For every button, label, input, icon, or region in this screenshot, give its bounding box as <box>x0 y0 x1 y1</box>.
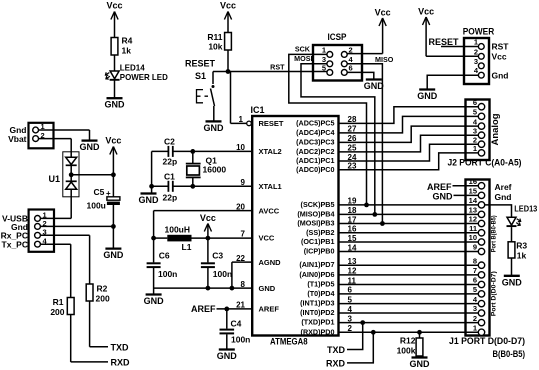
node (TXD/PD1) <box>360 320 365 325</box>
svg-text:(SCK)PB5: (SCK)PB5 <box>301 200 335 209</box>
svg-text:1: 1 <box>239 115 244 124</box>
svg-text:GND: GND <box>417 91 438 101</box>
LED LED13 <box>507 204 538 226</box>
svg-text:GND: GND <box>80 142 101 152</box>
wire <box>419 356 421 357</box>
wire PORT C bus (PC5-PC0 to J2) <box>339 107 479 170</box>
svg-text:Vcc: Vcc <box>418 7 434 17</box>
wire <box>419 332 421 338</box>
svg-text:Tx_PC: Tx_PC <box>2 240 28 250</box>
svg-text:C3: C3 <box>212 251 223 261</box>
ground (below S1) <box>204 121 225 132</box>
svg-text:1k: 1k <box>122 46 132 56</box>
svg-text:L1: L1 <box>182 242 192 252</box>
svg-text:1: 1 <box>322 46 326 55</box>
svg-text:RXD: RXD <box>326 359 346 369</box>
svg-text:RESET: RESET <box>259 119 284 128</box>
svg-text:Vcc: Vcc <box>375 8 391 18</box>
svg-text:3: 3 <box>473 304 477 313</box>
ground (below C6) <box>144 295 165 307</box>
svg-text:5: 5 <box>473 285 477 294</box>
wire (GND to J1 pin15) <box>454 194 479 196</box>
svg-text:10k: 10k <box>208 42 222 52</box>
wire GND pin 8 rail <box>154 287 253 289</box>
svg-text:XTAL2: XTAL2 <box>259 147 282 156</box>
svg-text:Vcc: Vcc <box>105 136 121 146</box>
power net Vcc (POWER) <box>418 7 478 57</box>
ground (POWER header) <box>417 90 438 102</box>
svg-text:GND: GND <box>204 123 225 133</box>
label MOSI <box>294 54 312 63</box>
wire (U1 bottom to V-USB) <box>41 190 71 219</box>
svg-text:Gnd: Gnd <box>492 71 509 81</box>
capacitor C6 <box>147 238 178 294</box>
wire (Rx_PC to R2) <box>41 235 90 284</box>
ground (below R3) <box>502 276 523 288</box>
label Port D(D0-D7) (rotated) <box>491 271 498 316</box>
svg-text:(OC1)PB1: (OC1)PB1 <box>301 237 335 246</box>
svg-text:TXD: TXD <box>327 345 346 355</box>
svg-text:MOSI: MOSI <box>294 54 312 63</box>
wire (Tx_PC to R1) <box>41 244 71 297</box>
svg-text:RESET: RESET <box>185 59 216 69</box>
svg-text:3: 3 <box>474 57 478 66</box>
label ATMEGA8 <box>270 337 308 348</box>
svg-text:16: 16 <box>469 177 477 186</box>
wire XTAL2 pin 10 <box>173 150 252 152</box>
label RST <box>270 63 285 72</box>
ground (battery connector) <box>80 141 101 153</box>
wire (TXD to PD1) <box>347 323 363 350</box>
label Port B(B0-B5) (rotated) <box>491 215 498 252</box>
svg-text:J1 PORT D(D0-D7): J1 PORT D(D0-D7) <box>449 336 525 347</box>
IC1 pin 1 inversion bubble <box>247 121 252 126</box>
wire <box>152 151 168 193</box>
wire SCK to PB5 <box>289 54 367 205</box>
node (L1 left) <box>151 236 156 241</box>
node (C3 to rail) <box>206 286 211 291</box>
wire XTAL1 pin 9 <box>173 185 252 187</box>
wire ICSP pin6 to ground <box>347 72 374 79</box>
IC1 right pin numbers <box>348 115 357 333</box>
svg-text:GND: GND <box>217 351 238 361</box>
wire <box>152 185 168 187</box>
svg-text:5: 5 <box>473 108 477 117</box>
svg-text:LED13: LED13 <box>514 204 538 213</box>
wire POWER Gnd pin <box>427 75 478 89</box>
svg-text:1k: 1k <box>517 251 527 261</box>
label MISO <box>375 55 394 64</box>
wire (R1 to RXD) <box>71 315 108 362</box>
svg-text:AREF: AREF <box>259 305 280 314</box>
svg-text:GND: GND <box>433 192 454 202</box>
resistor R4 <box>111 36 133 56</box>
label GND (J1 wire) <box>433 192 454 202</box>
node (R12/PD0) <box>417 330 422 335</box>
svg-text:GND: GND <box>410 359 431 369</box>
svg-text:TXD: TXD <box>111 343 130 353</box>
svg-text:MISO: MISO <box>375 55 394 64</box>
wire MOSI to PB3 <box>301 64 375 215</box>
svg-text:C4: C4 <box>231 319 242 329</box>
capacitor C4 <box>220 309 251 349</box>
power net Vcc (top-left) <box>106 1 122 38</box>
svg-text:C2: C2 <box>164 137 175 147</box>
node (AGND to rail) <box>230 286 235 291</box>
svg-text:(AIN0)PD6: (AIN0)PD6 <box>299 270 334 279</box>
svg-text:GND: GND <box>502 277 523 287</box>
ground (below R12) <box>410 358 431 370</box>
svg-text:C1: C1 <box>164 172 175 182</box>
node (SCK/PB5) <box>364 203 369 208</box>
wire RESET to POWER pin1 <box>441 46 478 48</box>
label SCK <box>295 45 311 54</box>
label RXD (bottom) <box>326 359 346 369</box>
svg-text:R11: R11 <box>207 32 222 42</box>
svg-text:5: 5 <box>322 64 326 73</box>
svg-text:(TXD)PD1: (TXD)PD1 <box>301 318 334 327</box>
svg-text:R2: R2 <box>97 284 108 294</box>
capacitor C3 <box>201 238 232 288</box>
ground (below C4) <box>217 350 238 362</box>
label AREF <box>191 304 216 314</box>
svg-text:6: 6 <box>349 64 353 73</box>
svg-text:B(B0-B5): B(B0-B5) <box>493 349 526 360</box>
svg-text:GND: GND <box>364 81 385 91</box>
svg-text:9: 9 <box>473 243 477 252</box>
node (crystal top) <box>190 149 195 154</box>
svg-text:100n: 100n <box>213 269 232 279</box>
svg-text:(INT0)PD2: (INT0)PD2 <box>300 308 334 317</box>
resistor R3 <box>508 240 527 260</box>
svg-text:1: 1 <box>473 144 477 153</box>
svg-text:15: 15 <box>469 187 477 196</box>
node (MOSI/PB4 line) <box>372 212 377 217</box>
svg-text:(MISO)PB4: (MISO)PB4 <box>297 209 334 218</box>
wire (R2 to TXD) <box>90 301 108 347</box>
power net Vcc (left) <box>105 136 121 197</box>
svg-text:R12: R12 <box>400 336 416 346</box>
svg-text:C6: C6 <box>159 251 170 261</box>
svg-text:(ADC4)PC4: (ADC4)PC4 <box>296 128 334 137</box>
svg-text:ICSP: ICSP <box>328 32 348 43</box>
svg-text:100n: 100n <box>158 269 177 279</box>
power net Vcc (VCC pin) <box>200 213 216 238</box>
wire <box>114 80 116 97</box>
wire <box>227 50 229 72</box>
node (AREF/C4) <box>224 307 229 312</box>
wire PORT B/D bus (PB5-PB0,PD7-PD0 to J1) <box>339 205 479 332</box>
node RESET junction <box>226 69 231 74</box>
svg-text:Vbat: Vbat <box>8 134 27 144</box>
resistor R12 <box>397 336 423 357</box>
svg-text:AREF: AREF <box>191 304 216 314</box>
svg-text:8: 8 <box>473 256 477 265</box>
node (C5/V-USB Gnd) <box>111 224 116 229</box>
svg-text:XTAL1: XTAL1 <box>259 182 282 191</box>
svg-text:(ADC1)PC1: (ADC1)PC1 <box>296 156 334 165</box>
svg-text:Port D(D0-D7): Port D(D0-D7) <box>491 271 498 316</box>
wire AGND pin 22 <box>232 262 252 288</box>
svg-text:22p: 22p <box>163 157 178 167</box>
svg-text:R3: R3 <box>516 240 527 250</box>
svg-text:GND: GND <box>144 296 165 306</box>
crystal Q1 <box>186 151 227 186</box>
svg-text:200: 200 <box>50 307 64 317</box>
svg-text:13: 13 <box>469 206 477 215</box>
svg-text:(INT1)PD3: (INT1)PD3 <box>300 299 334 308</box>
svg-text:POWER LED: POWER LED <box>120 72 168 82</box>
svg-text:Vcc: Vcc <box>200 213 216 223</box>
svg-text:(AIN1)PD7: (AIN1)PD7 <box>299 260 334 269</box>
svg-text:GND: GND <box>105 100 126 110</box>
node (crystal bottom) <box>190 184 195 189</box>
svg-text:(ADC3)PC3: (ADC3)PC3 <box>296 137 334 146</box>
node (Vcc/C3) <box>206 236 211 241</box>
svg-text:R1: R1 <box>53 297 64 307</box>
svg-text:GND: GND <box>259 284 276 293</box>
svg-text:16000: 16000 <box>203 165 227 175</box>
svg-text:GND: GND <box>139 195 160 205</box>
svg-text:100k: 100k <box>397 346 416 356</box>
connector (Gnd/Vbat header) <box>8 122 53 148</box>
wire (J1 pin14 to LED13) <box>485 205 512 217</box>
label TXD (bottom) <box>327 345 346 355</box>
label TXD (left) <box>111 343 130 353</box>
svg-text:2: 2 <box>473 314 477 323</box>
svg-text:SCK: SCK <box>295 45 311 54</box>
power net Vcc (reset pullup) <box>220 1 236 33</box>
label Analog (rotated) <box>490 114 500 146</box>
svg-text:Vcc: Vcc <box>106 1 122 11</box>
node (U1 center tap) <box>69 172 74 177</box>
label Gnd (J1) <box>495 192 512 202</box>
ground (below LED14) <box>105 98 126 110</box>
svg-text:ATMEGA8: ATMEGA8 <box>270 337 308 348</box>
svg-text:Aref: Aref <box>495 182 512 192</box>
connector J1 PORT D/B <box>449 177 525 360</box>
svg-text:2: 2 <box>474 47 478 56</box>
connector (V-USB header) <box>1 210 54 252</box>
LED LED14 POWER LED <box>105 64 167 82</box>
wire (U1 to Vcc rail) <box>71 174 113 176</box>
svg-text:1: 1 <box>474 38 478 47</box>
svg-text:POWER: POWER <box>463 27 495 37</box>
svg-text:VCC: VCC <box>259 234 275 243</box>
wire <box>114 55 116 71</box>
capacitor C5 100u electrolytic <box>87 187 120 248</box>
svg-text:GND: GND <box>103 250 124 260</box>
wire AVCC pin 20 <box>154 211 253 239</box>
svg-text:U1: U1 <box>48 174 60 184</box>
svg-text:RST: RST <box>270 63 285 72</box>
wire RESET net to switch <box>213 71 228 73</box>
svg-text:(T1)PD5: (T1)PD5 <box>307 280 334 289</box>
wire (Gnd pin to ground) <box>39 130 90 140</box>
svg-text:RESET: RESET <box>428 37 459 47</box>
svg-text:(SS)PB2: (SS)PB2 <box>306 228 334 237</box>
label RESET (power) <box>428 37 459 47</box>
connector POWER header <box>463 27 510 85</box>
svg-text:Vcc: Vcc <box>220 1 236 11</box>
IC1 left pin numbers <box>236 115 245 310</box>
wire <box>511 227 513 242</box>
svg-text:(ADC2)PC2: (ADC2)PC2 <box>296 147 334 156</box>
label RESET <box>185 59 216 69</box>
IC1 right pin function labels <box>296 118 334 336</box>
label AREF (J1 wire) <box>427 182 452 192</box>
power net Vcc (ICSP) <box>347 8 390 54</box>
resistor R11 <box>207 32 231 52</box>
wire AREF pin 21 <box>217 308 253 310</box>
svg-text:Port B(B0-B5): Port B(B0-B5) <box>491 215 498 252</box>
wire (V-USB Gnd to C5 rail) <box>41 225 114 227</box>
svg-text:AVCC: AVCC <box>259 206 280 215</box>
svg-text:(RXD)PD0: (RXD)PD0 <box>301 327 335 336</box>
ground (crystal) <box>139 194 160 206</box>
ground (below C5) <box>103 249 124 261</box>
node (Vcc/U1 junction) <box>111 172 116 177</box>
svg-text:RXD: RXD <box>111 358 131 368</box>
wire RESET net to ICSP RST <box>228 71 327 73</box>
label RXD (left) <box>111 358 131 368</box>
svg-text:S1: S1 <box>195 71 206 81</box>
svg-text:3: 3 <box>473 126 477 135</box>
svg-text:Gnd: Gnd <box>495 192 512 202</box>
svg-text:200: 200 <box>96 294 110 304</box>
svg-text:12: 12 <box>469 215 477 224</box>
switch S1 <box>195 71 215 121</box>
diode array U1 <box>48 152 79 197</box>
svg-text:(ICP)PB0: (ICP)PB0 <box>304 247 335 256</box>
svg-text:6: 6 <box>473 276 477 285</box>
resistor R1 <box>50 297 74 317</box>
wire (Vbat to U1) <box>39 139 72 157</box>
IC1 left pin function labels <box>259 119 284 314</box>
svg-text:Analog: Analog <box>490 114 500 146</box>
ground (ICSP) <box>364 80 385 92</box>
svg-text:IC1: IC1 <box>251 105 265 115</box>
label Aref (J1) <box>495 182 512 192</box>
svg-text:AGND: AGND <box>259 258 282 267</box>
svg-text:J2 PORT C(A0-A5): J2 PORT C(A0-A5) <box>448 158 522 169</box>
svg-text:RST: RST <box>492 42 510 52</box>
svg-text:R4: R4 <box>122 36 133 46</box>
svg-text:1: 1 <box>473 324 477 333</box>
wire (RXD to PD0) <box>347 332 373 363</box>
resistor R2 <box>86 284 110 304</box>
svg-text:100uH: 100uH <box>165 225 191 235</box>
svg-text:7: 7 <box>473 266 477 275</box>
capacitor C2 <box>163 137 178 167</box>
svg-text:10: 10 <box>469 233 477 242</box>
svg-text:(MOSI)PB3: (MOSI)PB3 <box>297 219 334 228</box>
svg-text:C5: C5 <box>94 187 105 197</box>
svg-text:AREF: AREF <box>427 182 452 192</box>
svg-text:(ADC5)PC5: (ADC5)PC5 <box>296 118 334 127</box>
wire (AREF to J1 pin16) <box>453 185 479 187</box>
svg-text:11: 11 <box>469 224 477 233</box>
node (MISO/PB3 line) <box>380 221 385 226</box>
connector J2 PORT C <box>448 98 522 169</box>
svg-text:7: 7 <box>241 230 246 239</box>
svg-text:14: 14 <box>469 196 478 205</box>
svg-text:(T0)PD4: (T0)PD4 <box>307 289 334 298</box>
svg-text:22p: 22p <box>163 193 178 203</box>
svg-text:100u: 100u <box>87 201 106 211</box>
svg-text:100n: 100n <box>231 335 250 345</box>
wire MISO to PB3 line <box>347 64 382 224</box>
svg-text:Vcc: Vcc <box>492 52 507 62</box>
capacitor C1 <box>163 172 178 203</box>
svg-text:2: 2 <box>473 135 477 144</box>
connector ICSP header <box>313 32 362 81</box>
svg-text:6: 6 <box>473 98 477 107</box>
wire <box>511 258 513 275</box>
wire RESET net down to IC pin 1 <box>228 72 247 124</box>
node (RXD/PD0) <box>371 330 376 335</box>
inductor L1 <box>154 225 253 253</box>
svg-text:(ADC0)PC0: (ADC0)PC0 <box>296 165 334 174</box>
IC U1 ATMEGA8 body <box>251 105 339 336</box>
node (C1/GND junction) <box>149 184 154 189</box>
